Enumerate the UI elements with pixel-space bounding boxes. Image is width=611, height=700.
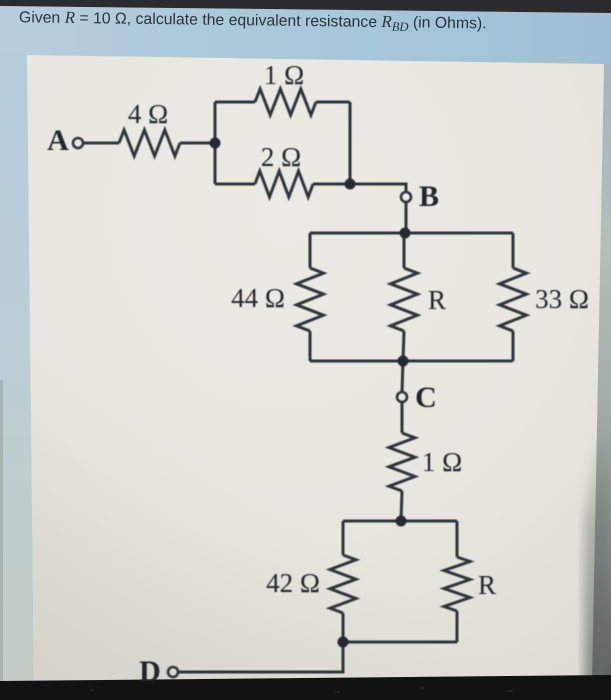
svg-text:2 Ω: 2 Ω: [261, 142, 301, 172]
wire to node B: [350, 184, 406, 192]
svg-text:1 Ω: 1 Ω: [422, 447, 462, 477]
resistor R (bottom): [444, 557, 470, 611]
wire right branch bottom: [512, 331, 515, 361]
wire top branch left: [215, 101, 255, 104]
wire left vertical of top parallel box: [214, 102, 217, 184]
junction dot bottom box top: [396, 516, 407, 527]
junction dot at 4ohm node: [210, 138, 221, 149]
node A terminal circle: [73, 138, 83, 148]
resistor R4 (4 ohm): [119, 130, 180, 156]
node B terminal circle: [401, 192, 411, 202]
wire bottom rail of middle box: [310, 360, 513, 363]
svg-text:R: R: [428, 285, 446, 315]
wire bottom branch right: [313, 183, 350, 186]
wire bottom rail of bottom box: [343, 641, 457, 644]
junction dot middle box bottom: [398, 356, 409, 367]
svg-text:D: D: [139, 655, 161, 688]
resistor 44 ohm: [297, 268, 324, 331]
resistor 33 ohm: [500, 268, 527, 331]
resistor R (middle): [391, 268, 418, 331]
svg-text:R: R: [478, 570, 496, 600]
wire left branch bottom: [309, 331, 312, 361]
wire resistor to node: [180, 142, 215, 145]
junction dot middle box top: [400, 228, 411, 239]
svg-text:1 Ω: 1 Ω: [264, 60, 304, 90]
wire middle branch top: [403, 233, 406, 268]
wire bottom branch left: [215, 183, 255, 186]
wire right branch top: [512, 233, 515, 268]
header question text: [19, 7, 487, 35]
wire C to resistor 1 ohm: [401, 402, 404, 433]
svg-text:4 Ω: 4 Ω: [128, 99, 168, 129]
resistor 1 ohm (vertical): [389, 433, 415, 491]
wire middle branch bottom: [403, 331, 404, 361]
svg-text:B: B: [419, 180, 439, 213]
resistor 42 ohm: [330, 555, 356, 613]
svg-text:A: A: [47, 124, 69, 157]
wire left branch bottom (bottom box): [342, 613, 345, 642]
wire to node D: [179, 642, 343, 672]
wire to node C: [402, 361, 403, 392]
wire B to middle box top rail: [405, 202, 408, 233]
wire resistor to bottom box: [401, 491, 402, 521]
wire right branch top (bottom box): [456, 521, 459, 557]
wire left branch top: [309, 233, 312, 268]
wire top branch right: [316, 101, 350, 104]
svg-text:33 Ω: 33 Ω: [535, 284, 589, 314]
svg-text:44 Ω: 44 Ω: [231, 283, 285, 313]
node D terminal circle: [168, 667, 178, 677]
svg-text:42 Ω: 42 Ω: [266, 568, 320, 598]
node C terminal circle: [397, 392, 407, 402]
junction dot top box output: [345, 179, 356, 190]
wire top rail of bottom box: [343, 520, 457, 523]
svg-text:C: C: [415, 381, 437, 414]
wire left branch top (bottom box): [342, 521, 345, 555]
wire A to resistor 4ohm: [84, 142, 119, 145]
resistor R1 (1 ohm): [255, 89, 316, 115]
wire right branch bottom (bottom box): [456, 611, 459, 642]
wire top rail of middle box: [310, 232, 513, 235]
resistor R2 (2 ohm): [255, 171, 313, 197]
junction dot bottom box bottom-left: [338, 637, 349, 648]
wire right vertical of top parallel box: [349, 102, 352, 184]
